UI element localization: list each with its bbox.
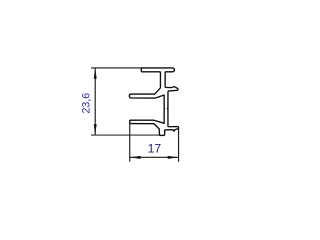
dimension line 23,6 (vertical) (94, 68, 96, 135)
svg-text:23,6: 23,6 (80, 93, 92, 114)
aluminium profile outline (cross-section) (129, 68, 178, 136)
arrowhead left of 17 (130, 156, 141, 159)
dimension line 17 (horizontal) (130, 156, 179, 158)
extension line bottom (23,6 lower reference) (91, 134, 160, 136)
svg-text:17: 17 (148, 142, 162, 156)
extension line left (17 left reference) (129, 120, 131, 161)
arrowhead top of 23,6 (94, 68, 97, 79)
extension line right (17 right reference) (178, 127, 180, 162)
arrowhead bottom of 23,6 (94, 124, 97, 135)
extension line top (23,6 upper reference) (91, 67, 142, 69)
arrowhead right of 17 (168, 156, 179, 159)
